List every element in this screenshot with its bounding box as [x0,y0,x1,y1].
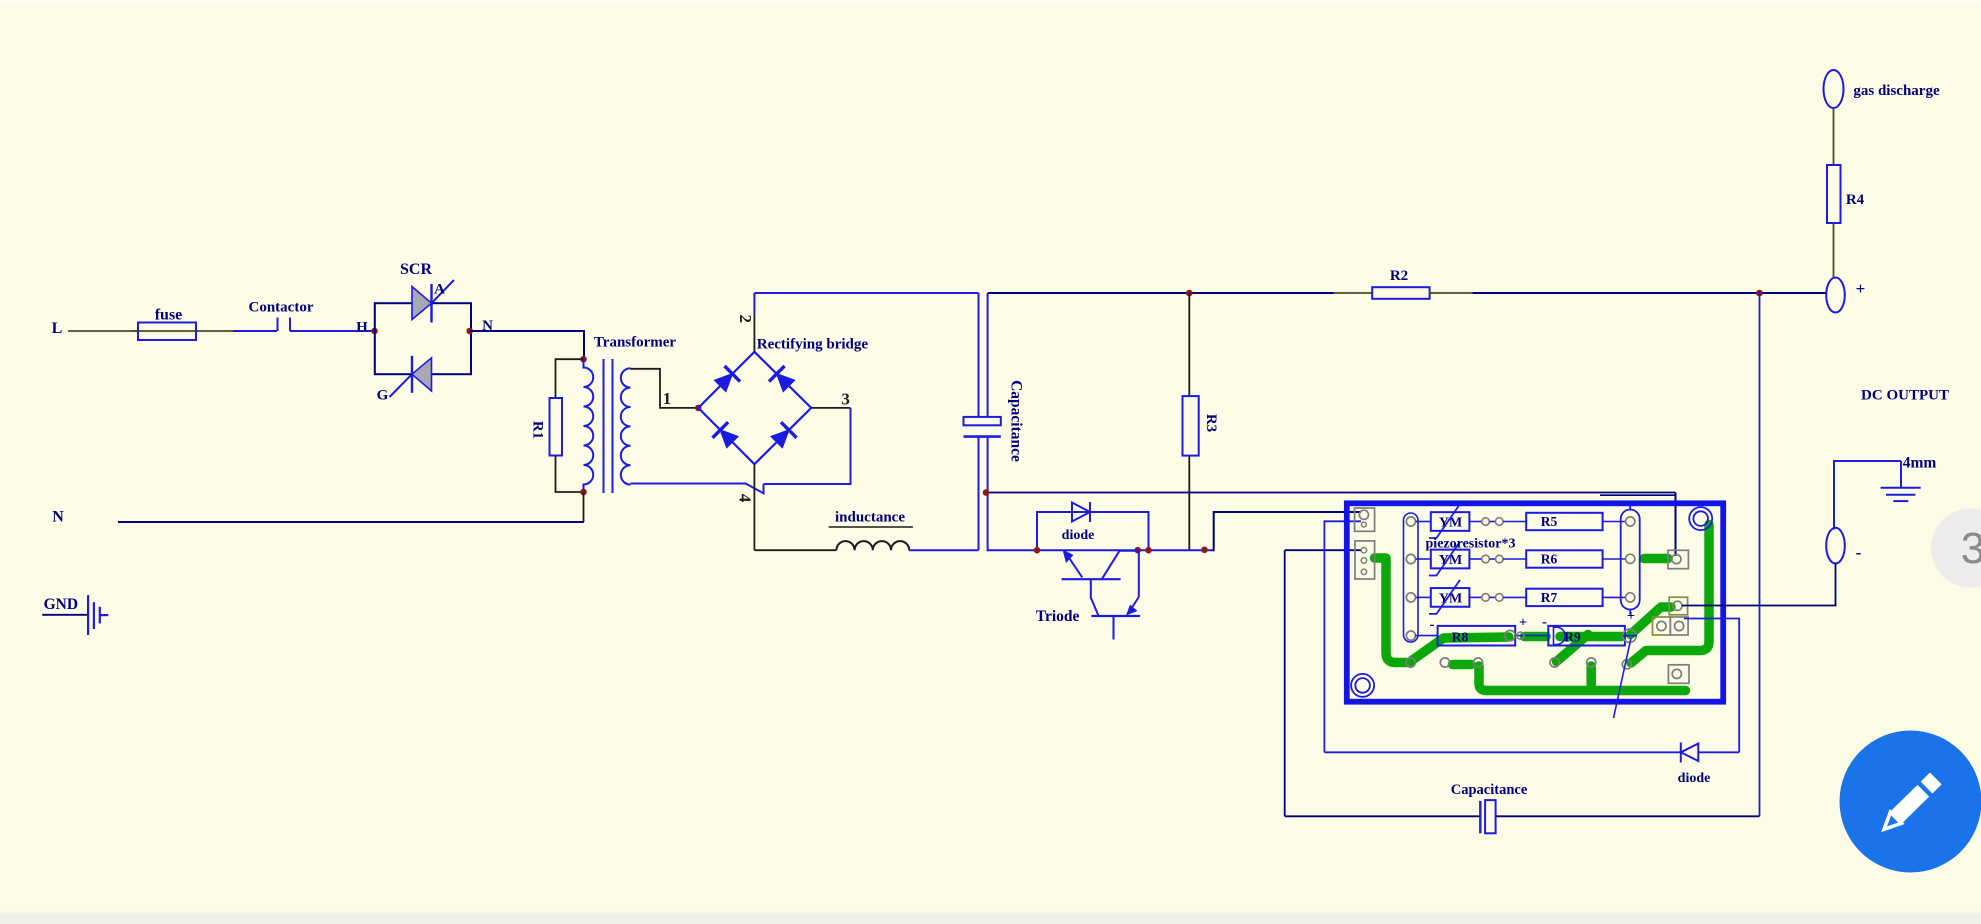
fuse [132,323,202,341]
wire [1675,493,1677,557]
node junction [1756,290,1763,297]
pcb pads bottom row [1406,658,1631,669]
ground [88,595,108,635]
pcb trace green to pad A [1631,607,1672,635]
wire [1833,223,1835,278]
gas discharge tube [1824,70,1844,108]
svg-text:R7: R7 [1541,590,1558,605]
wire [1324,751,1680,753]
node junction [1145,547,1152,554]
svg-text:+: + [1627,609,1635,624]
wire [470,331,584,359]
svg-text:H: H [356,320,368,336]
resistor R8 [1415,626,1515,646]
diode D1 [1072,502,1090,522]
svg-text:diode: diode [1678,771,1711,786]
wire crossover hop [631,484,764,494]
wire [1759,293,1761,816]
node GND [42,596,88,615]
mounting hole top right [1689,507,1712,530]
bottom bar [0,914,1981,924]
svg-text:+: + [1519,616,1527,631]
wire [631,369,699,408]
resistor R5 [1526,513,1625,530]
svg-text:+: + [1856,279,1866,298]
svg-text:Capacitance: Capacitance [1008,380,1025,462]
pcb pad PC [1668,665,1689,684]
resistor R7 [1526,589,1625,606]
rectifying bridge [698,352,811,464]
wire [978,293,980,417]
wire [68,330,138,332]
wire [290,330,375,332]
node junction [1034,547,1041,554]
wire [1600,494,1676,496]
pcb pad R9 right [1623,629,1637,642]
ground [1881,461,1921,501]
connector J1 [1355,508,1375,531]
svg-text:gas discharge: gas discharge [1853,83,1940,99]
wire [1496,815,1760,817]
pcb pads stadium [1626,517,1635,602]
wire [0,0,1981,3]
svg-text:R9: R9 [1564,630,1581,645]
svg-text:N: N [52,509,64,526]
wire [583,492,585,522]
wire [754,549,836,551]
SCR back-to-back thyristors [375,280,471,397]
node junction [1201,547,1208,554]
pcb pads left column [1406,517,1415,640]
wire [987,293,989,417]
resistor R6 [1526,550,1625,567]
svg-text:diode: diode [1062,528,1095,543]
resistor R2 [1334,287,1473,299]
pcb pad PA [1669,597,1687,615]
svg-text:3: 3 [1961,524,1981,573]
svg-text:piezoresistor*3: piezoresistor*3 [1426,537,1516,552]
svg-text:Contactor: Contactor [249,300,314,316]
pcb stadium right [1621,505,1640,615]
inductor [836,541,909,550]
svg-text:-: - [1856,543,1862,562]
wire [988,492,1676,494]
svg-text:3: 3 [841,389,850,408]
resistor R3 [1183,293,1199,550]
svg-text:R2: R2 [1390,268,1408,284]
pcb trace green right vertical [1631,525,1709,664]
badge bubble [1931,509,1981,588]
piezoresistor YM1 [1416,504,1470,538]
node junction [1186,290,1193,297]
capacitor C1 [964,417,1001,437]
svg-text:R1: R1 [530,421,546,439]
svg-text:R5: R5 [1541,514,1558,529]
pcb pad P1 [1668,550,1688,568]
wire [1472,292,1826,294]
connector J2 [1355,541,1375,579]
svg-text:R3: R3 [1203,414,1219,432]
wire [1834,461,1901,530]
svg-text:inductance: inductance [835,510,905,526]
wire [764,408,851,484]
mounting hole bottom left [1351,674,1374,697]
wire [1684,619,1739,753]
svg-text:Rectifying bridge: Rectifying bridge [757,337,869,353]
pcb via pair [1469,555,1526,563]
wire [753,293,755,313]
wire [753,313,755,352]
svg-text:Capacitance: Capacitance [1451,782,1528,798]
wire [118,521,584,523]
wire [811,407,850,409]
pcb trace green stub row2 [1644,554,1668,564]
svg-text:-: - [1430,617,1435,633]
wire [1284,550,1286,816]
svg-text:Transformer: Transformer [594,335,677,351]
svg-text:R6: R6 [1541,552,1558,567]
callout line [1614,638,1632,718]
wire [1682,564,1836,606]
node junction [983,489,990,496]
svg-text:Triode: Triode [1036,608,1080,625]
pcb pad R8 right [1505,630,1515,640]
resistor R4 [1827,165,1841,223]
wire [987,437,989,552]
svg-text:G: G [377,388,389,404]
transistor Q2 [1091,550,1140,639]
transistor Q1 [1062,550,1138,580]
pcb trace green dash [1525,632,1547,642]
PCB board outline [1347,503,1723,701]
node junction [1134,547,1141,554]
piezoresistor YM2 [1416,542,1470,576]
wire [233,330,277,332]
svg-text:A: A [434,282,445,298]
pcb trace green R9 [1557,635,1622,662]
svg-text:R8: R8 [1452,630,1469,645]
node junction [695,405,702,412]
svg-text:4mm: 4mm [1903,455,1937,472]
resistor R9 [1548,626,1625,646]
wire [1214,512,1361,551]
pcb via [1515,632,1548,639]
wire [988,549,1214,551]
svg-text:1: 1 [663,389,672,408]
svg-text:fuse: fuse [155,307,183,324]
terminal minus [1826,528,1845,564]
pcb trace green main [1375,558,1510,663]
svg-text:2: 2 [736,315,755,324]
transformer secondary winding [621,368,631,484]
wire [202,330,233,332]
wire [1285,815,1481,817]
svg-text:R4: R4 [1846,192,1865,208]
node junction [580,489,587,496]
wire [754,292,978,294]
contactor switch [278,318,291,332]
svg-text:GND: GND [44,596,78,613]
wire [753,464,755,550]
svg-text:L: L [52,320,63,337]
pcb bus outline [1404,513,1419,642]
wire [1037,512,1149,550]
wire [1285,549,1361,551]
pcb trace green dash2 [1453,660,1472,670]
resistor R1 [550,359,584,492]
diode D2 [1681,743,1739,763]
transformer core [604,359,613,493]
wire [909,549,978,551]
pcb trace green bottom [1479,666,1686,691]
capacitor C2 [1480,800,1495,833]
wire [988,292,1334,294]
edit button [1840,731,1981,873]
pcb via pair [1469,594,1526,602]
transformer primary winding [584,359,594,490]
terminal plus [1826,278,1845,313]
node junction [580,356,587,363]
svg-text:4: 4 [735,494,754,503]
pcb trace green stub2 [1586,666,1596,689]
piezoresistor YM3 [1416,580,1470,614]
wire [1833,108,1835,165]
wire [829,526,913,528]
svg-text:DC OUTPUT: DC OUTPUT [1861,388,1949,404]
wire [1324,521,1361,752]
svg-text:SCR: SCR [400,261,432,278]
wire [978,437,980,551]
pcb pad PB [1653,617,1689,635]
svg-text:-: - [1542,615,1547,631]
pcb via pair [1469,518,1526,526]
